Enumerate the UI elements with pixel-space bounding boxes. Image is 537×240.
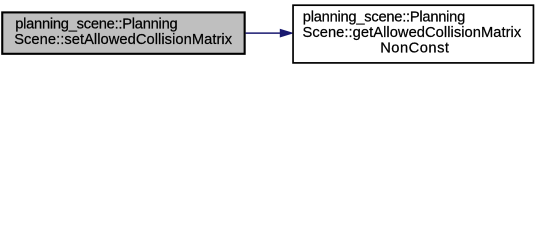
svg-text:planning_scene::Planning: planning_scene::Planning (15, 17, 177, 33)
node: planning_scene::PlanningScene::getAllowedCollisionMatrixNonConst (293, 5, 533, 63)
svg-text:NonConst: NonConst (380, 41, 449, 57)
wire (246, 32, 281, 34)
svg-text:Scene::setAllowedCollisionMatr: Scene::setAllowedCollisionMatrix (14, 32, 233, 48)
edge: call arrow (midnightblue) (246, 29, 293, 36)
svg-text:Scene::getAllowedCollisionMatr: Scene::getAllowedCollisionMatrix (303, 25, 522, 41)
svg-text:planning_scene::Planning: planning_scene::Planning (303, 9, 465, 25)
node: planning_scene::PlanningScene::setAllowedCollisionMatrix (current node, grey) (2, 12, 244, 53)
arrowhead (280, 29, 292, 36)
